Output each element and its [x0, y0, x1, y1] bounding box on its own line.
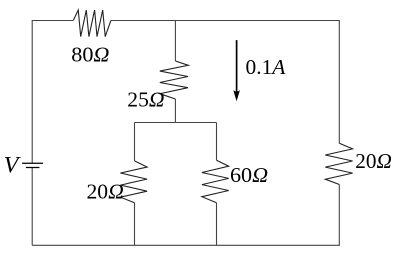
wire right parallel branch lower: [216, 203, 218, 246]
wire bottom: [32, 244, 339, 246]
svg-text:25Ω: 25Ω: [127, 88, 164, 112]
wire parallel-top: [134, 122, 216, 124]
svg-text:0.1A: 0.1A: [246, 55, 286, 79]
wire middle branch upper: [174, 21, 176, 62]
svg-text:80Ω: 80Ω: [71, 43, 109, 67]
svg-text:20Ω: 20Ω: [87, 179, 124, 203]
svg-text:V: V: [4, 153, 22, 178]
wire top right segment: [111, 20, 340, 22]
current arrow shaft: [236, 40, 238, 92]
battery V long plate: [22, 162, 43, 164]
resistor R5 20ohm (right edge): [325, 143, 352, 184]
wire right lower: [338, 185, 340, 246]
wire left lower: [31, 167, 33, 245]
wire right upper: [338, 20, 340, 143]
wire left parallel branch lower: [134, 203, 136, 246]
resistor R3 20ohm (left parallel): [120, 161, 147, 203]
resistor R1 80ohm (top): [73, 10, 111, 37]
current arrow head: [233, 90, 240, 101]
wire right parallel branch upper: [216, 123, 218, 161]
resistor R4 60ohm (right parallel): [202, 160, 229, 203]
battery V short plate: [26, 167, 40, 169]
wire top left segment: [32, 20, 73, 22]
wire middle branch lower: [174, 99, 176, 123]
svg-text:20Ω: 20Ω: [355, 149, 392, 173]
wire left parallel branch upper: [134, 123, 136, 161]
svg-text:60Ω: 60Ω: [230, 163, 268, 187]
wire left upper: [31, 20, 33, 163]
resistor R2 25ohm (middle): [160, 61, 189, 99]
